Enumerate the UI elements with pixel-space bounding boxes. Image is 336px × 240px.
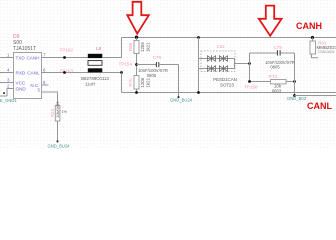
svg-text:GND_BU24: GND_BU24 [48, 143, 71, 148]
wire CANH choke to riser [102, 57, 122, 59]
capacitor C76 plates [155, 62, 157, 67]
choke L8 winding bar bottom [88, 68, 103, 72]
wire gnd horizontal to edge [0, 95, 7, 97]
wire MMBZ lower stub [312, 54, 319, 58]
svg-text:CANH: CANH [26, 56, 39, 61]
junction TVS column on CANH [197, 36, 200, 39]
net anchor dot [57, 141, 59, 143]
svg-text:TP158: TP158 [244, 85, 258, 90]
wire CANL choke to riser [102, 72, 122, 74]
wire MMBZ column upper [312, 38, 314, 42]
resistor R24 pulldown body [55, 106, 60, 122]
svg-text:GND_BU24: GND_BU24 [170, 97, 193, 102]
net label anchor dot [3, 92, 5, 94]
wire mid vertical between R88 and R70 [136, 54, 138, 76]
wire R24 tail [57, 121, 59, 141]
svg-text:C76: C76 [153, 55, 162, 60]
svg-text:TJA1051T: TJA1051T [13, 46, 36, 52]
svg-text:TP163: TP163 [60, 68, 74, 73]
svg-text:V22: V22 [217, 44, 226, 49]
wire R70 tail to CANL [136, 89, 138, 93]
wire gnd out to right edge [295, 95, 336, 97]
wire CANH riser up [121, 38, 123, 59]
svg-text:R73: R73 [269, 74, 278, 79]
wire CANL riser down [121, 73, 123, 93]
wire right gnd column vertical [294, 53, 296, 96]
wire CANH row IC to choke [42, 57, 89, 59]
junction right gnd column [293, 80, 296, 83]
junction gnd corner [293, 94, 296, 97]
TVS diode row 2 wire [199, 68, 235, 70]
svg-text:0603: 0603 [272, 88, 282, 93]
svg-text:CANL: CANL [307, 101, 332, 111]
junction MMBZ column on CANH [311, 36, 314, 39]
wire pin2 vertical [6, 89, 8, 97]
svg-text:1k21: 1k21 [146, 77, 151, 87]
junction TVS column on CANL [197, 91, 200, 94]
wire pin4 RXD [0, 72, 14, 74]
svg-text:TXD: TXD [16, 56, 26, 61]
resistor R73 body [271, 80, 287, 84]
TVS zener pair row1 left [208, 56, 216, 61]
junction R70 on CANL [135, 91, 138, 94]
wire TVS column vertical [198, 38, 200, 93]
wire R73 run right [286, 81, 295, 83]
TVS right side vertical [234, 59, 236, 69]
resistor R70 body [134, 76, 139, 90]
wire R73 run left [250, 81, 271, 83]
IC D9 body [14, 53, 42, 99]
choke L8 core rect [88, 61, 102, 66]
net anchor dot [178, 96, 180, 98]
wire pin3 VCC [0, 82, 14, 84]
TVS zener pair row2 right [220, 66, 228, 71]
svg-text:MMBZ027V: MMBZ027V [317, 45, 336, 50]
wire TVS pin3 out [235, 63, 250, 65]
wire mid rail to C76 [137, 64, 157, 66]
svg-text:1%: 1% [62, 110, 68, 114]
resistor R88 body [134, 41, 139, 54]
svg-text:RXD: RXD [16, 71, 26, 76]
zener R61 body [310, 41, 316, 54]
svg-text:1206: 1206 [140, 77, 145, 87]
svg-text:GND_B03: GND_B03 [287, 96, 307, 101]
choke L8 winding bar top [88, 54, 103, 58]
svg-text:CANH: CANH [296, 21, 322, 31]
wire node vertical up to C75 run [249, 53, 251, 82]
capacitor C75 plates [276, 50, 278, 55]
svg-text:CANL: CANL [27, 71, 40, 76]
wire gnd drop vertical [178, 65, 180, 98]
svg-text:R88: R88 [128, 42, 133, 51]
svg-text:B82789C0113: B82789C0113 [81, 76, 109, 81]
TVS V22 dashed body [201, 51, 235, 72]
red arrow 2 (outline, points to CANH line) [259, 6, 282, 36]
wire C76 to gnd drop [159, 64, 179, 66]
TVS zener pair row2 left [208, 66, 216, 71]
wire C75 run left [250, 52, 278, 54]
TVS zener pair row1 right [220, 56, 228, 61]
svg-text:0805: 0805 [270, 65, 280, 70]
wire C75 run right [280, 52, 294, 54]
svg-text:11uH: 11uH [85, 82, 95, 87]
junction TP163 [63, 71, 66, 74]
svg-text:0805: 0805 [147, 73, 157, 78]
svg-text:10k/0603: 10k/0603 [55, 101, 60, 118]
junction arrow1 on CANH [135, 36, 138, 39]
svg-text:GND: GND [16, 87, 27, 92]
wire pin8 stub [42, 84, 49, 86]
junction R73 node [248, 80, 251, 83]
wire CANL bus [122, 92, 336, 94]
TVS diode row 1 wire [199, 58, 235, 60]
junction TVS pin3 node [248, 62, 251, 65]
IC U(D9) designator label [13, 34, 20, 40]
junction mid rail [135, 63, 138, 66]
svg-text:TP162: TP162 [60, 47, 74, 52]
wire pin5 to pulldown resistor [42, 92, 58, 106]
junction TP154 [120, 71, 123, 74]
svg-text:TP154: TP154 [119, 61, 133, 66]
wire CANH bus [122, 37, 336, 39]
svg-text:SOT23: SOT23 [220, 83, 234, 88]
svg-text:C75: C75 [274, 45, 283, 50]
svg-text:1206: 1206 [140, 42, 145, 52]
wire pin1 TXD [0, 57, 14, 59]
IC D9 part name TJA1051T [13, 46, 36, 52]
red arrow 1 (outline, points to CANH junction) [127, 2, 149, 34]
svg-text:VCC: VCC [16, 81, 26, 86]
svg-text:R70: R70 [128, 78, 133, 87]
wire pin2 GND stub [7, 88, 14, 90]
wire CANL row IC to choke [42, 72, 89, 74]
svg-text:C0A/1A05: C0A/1A05 [318, 50, 334, 54]
svg-text:E_GND1: E_GND1 [0, 98, 17, 103]
svg-text:1k21: 1k21 [146, 42, 151, 52]
svg-text:PESD1CAN: PESD1CAN [213, 77, 237, 82]
wire R88 drop from CANH [136, 38, 138, 41]
IC D9 part code label S00 [13, 40, 22, 46]
junction TP162 [63, 56, 66, 59]
svg-text:L8: L8 [96, 46, 102, 52]
